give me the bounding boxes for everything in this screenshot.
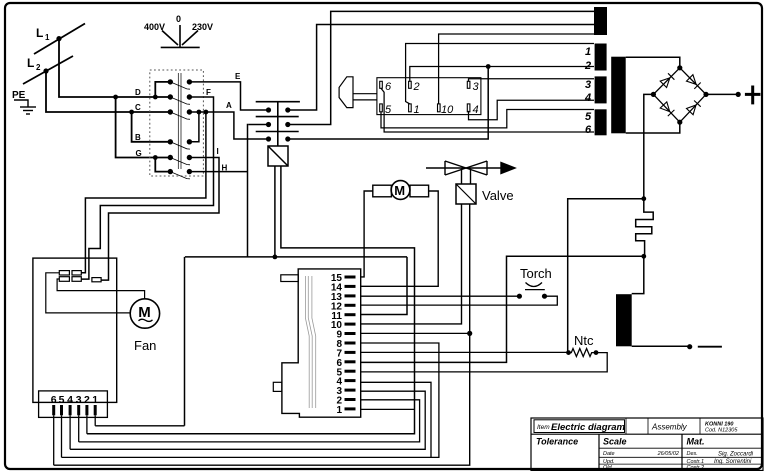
- switch L2: [23, 56, 73, 84]
- wire valve right to pin9 and bundle6: [54, 204, 470, 465]
- svg-text:Fan: Fan: [134, 338, 156, 353]
- wire pin5 to tap5: [381, 110, 594, 128]
- SECTION: wires switch to connector / fan box: [81, 82, 266, 280]
- wire D-row branch down to G row: [116, 97, 171, 158]
- node on A row x206: [204, 110, 209, 115]
- svg-text:I: I: [217, 147, 219, 156]
- wire motor right to pin14: [361, 191, 438, 286]
- pin 2: [409, 81, 412, 88]
- secondary winding bar: [611, 57, 626, 134]
- svg-text:C: C: [135, 103, 141, 112]
- wire valve left to pin10: [361, 204, 462, 324]
- fan outer box: [33, 258, 117, 402]
- svg-text:2: 2: [36, 63, 41, 72]
- wire x185 down: [184, 257, 186, 426]
- pcb pin 7: [345, 351, 356, 354]
- SECTION: gas pump motor: [361, 181, 438, 287]
- svg-text:2: 2: [413, 81, 420, 93]
- title name box: [534, 420, 625, 433]
- pcb pin 3: [345, 389, 356, 392]
- svg-text:A: A: [226, 101, 232, 110]
- wire L1 to D row: [59, 39, 170, 97]
- plug ribbon lines: [353, 94, 377, 100]
- title inner dividers: [599, 434, 682, 469]
- valve body diagonal: [456, 184, 476, 204]
- svg-text:6: 6: [385, 81, 392, 93]
- svg-text:B: B: [135, 133, 141, 142]
- wire I down: [101, 158, 219, 281]
- title block outer: [531, 418, 763, 470]
- connector center line: [277, 102, 279, 147]
- node torch right: [542, 294, 547, 299]
- wire ntc right to pin5 riser: [361, 353, 607, 372]
- pin dot row2 right: [285, 122, 290, 127]
- wire c2 drop: [86, 415, 88, 434]
- pin c4: [69, 405, 72, 415]
- svg-text:5: 5: [585, 111, 592, 123]
- wire pin4 to tap4: [469, 100, 595, 120]
- connector bar mid: [256, 116, 299, 118]
- svg-text:Electric diagram: Electric diagram: [551, 422, 625, 433]
- svg-text:Valve: Valve: [482, 188, 514, 203]
- contact row6: [168, 169, 192, 179]
- wire module right leg down to bundle c2: [87, 166, 415, 434]
- pin c6: [52, 405, 55, 415]
- svg-text:D: D: [135, 88, 141, 97]
- terminal B2: [72, 277, 81, 282]
- node D junction: [153, 95, 158, 100]
- wire pin7 to ntc: [361, 351, 569, 353]
- wire connector row2L down: [247, 125, 250, 257]
- minus symbol: [698, 346, 722, 348]
- node choke top: [641, 196, 646, 201]
- SECTION: DC loop: [361, 94, 653, 362]
- terminal B1: [59, 277, 69, 282]
- node junction on D row: [113, 95, 118, 100]
- pcb pin 12: [345, 304, 356, 307]
- node torch left: [517, 294, 522, 299]
- pin dot row1 right: [285, 107, 290, 112]
- wire c3 drop: [78, 415, 80, 442]
- node bridge bottom: [677, 120, 682, 125]
- svg-text:400V: 400V: [144, 22, 165, 32]
- wire row2R to 0-bus: [288, 11, 594, 124]
- contact row1: [168, 79, 192, 89]
- wire L2 to C row: [46, 71, 170, 112]
- pin c5: [60, 405, 63, 415]
- svg-text:5: 5: [59, 394, 65, 406]
- wire C2 drop to fan box: [81, 112, 206, 273]
- svg-text:Item: Item: [537, 424, 550, 431]
- node minus terminal: [687, 344, 692, 349]
- svg-text:6: 6: [51, 394, 57, 406]
- wire c1 drop: [94, 415, 96, 426]
- svg-text:4: 4: [473, 104, 479, 116]
- pcb pin 9: [345, 332, 356, 335]
- terminal A2: [72, 271, 81, 275]
- shunt winding bar: [616, 294, 632, 346]
- pcb pin 11: [345, 313, 356, 316]
- node y257 module junction: [273, 255, 278, 260]
- contact row4 B: [168, 139, 192, 149]
- node bridge right: [703, 92, 708, 97]
- wire pin3 hairpin to bundle c4: [70, 391, 425, 449]
- pin c2: [85, 405, 88, 415]
- svg-text:Scale: Scale: [603, 437, 627, 447]
- winding bar tap0: [594, 7, 607, 35]
- wire pin3 to tap3: [469, 79, 595, 82]
- svg-text:L: L: [27, 56, 34, 70]
- ground PE: [14, 100, 36, 114]
- svg-text:3: 3: [473, 81, 480, 93]
- svg-text:Ing. Sorrentini: Ing. Sorrentini: [714, 459, 752, 465]
- bridge diamond: [653, 68, 706, 122]
- wire H: [189, 171, 247, 173]
- svg-text:10: 10: [441, 104, 454, 116]
- node tap2 junction: [486, 64, 491, 69]
- wire bundle c1: [95, 425, 184, 427]
- wire module left leg down: [274, 166, 276, 257]
- wire choke down to shunt: [632, 256, 644, 293]
- pin c1: [94, 405, 97, 415]
- svg-text:PE: PE: [12, 90, 26, 101]
- wire C-row branch down to B row: [132, 112, 171, 142]
- label M1 tilde: [139, 319, 153, 321]
- pcb box: [282, 269, 361, 417]
- wire c4 drop: [69, 415, 71, 449]
- pin dot row3 left: [266, 136, 271, 141]
- fan connector box: [39, 391, 108, 418]
- pcb pin 2: [345, 398, 356, 401]
- wire c5 drop: [61, 415, 63, 457]
- svg-text:Mat.: Mat.: [687, 437, 705, 447]
- wire pin4 hairpin to bundle c5: [62, 382, 432, 457]
- torch actuator arc: [526, 283, 543, 287]
- wire torch left to pin13: [361, 295, 519, 297]
- wire bridge to plus: [706, 93, 738, 95]
- long wire y257 net: [185, 255, 408, 426]
- SECTION: title block: [531, 418, 763, 470]
- wire B1 to motor top: [57, 279, 145, 298]
- pcb pin 13: [345, 294, 356, 297]
- svg-text:4: 4: [67, 394, 73, 406]
- wire G to row6 U-link: [155, 158, 170, 172]
- resistor Ntc zigzag: [569, 349, 597, 357]
- winding bar taps 3-4: [595, 76, 607, 103]
- wire A: [189, 112, 266, 139]
- wire c6 drop: [53, 415, 55, 465]
- wire motor left to pin15: [361, 191, 373, 277]
- svg-text:2: 2: [584, 60, 591, 72]
- wire choke bottom to pcb pin6: [361, 256, 644, 362]
- wire F down: [81, 97, 213, 279]
- winding bar taps 1-2: [595, 44, 607, 71]
- svg-text:1: 1: [585, 46, 591, 58]
- wire bridge left down: [644, 94, 654, 198]
- wire row2L stub: [248, 124, 268, 126]
- pin 1: [409, 104, 412, 112]
- SECTION: valve: [54, 161, 515, 465]
- pin dot row3 right: [285, 136, 290, 141]
- pcb pin 6: [345, 360, 356, 363]
- title row divider: [531, 433, 763, 435]
- selector dashed box: [150, 70, 204, 176]
- svg-text:2: 2: [84, 394, 90, 406]
- pcb pin 8: [345, 342, 356, 345]
- node ntc left: [566, 350, 571, 355]
- wire pin1 to tap1: [406, 44, 594, 104]
- svg-text:4: 4: [584, 92, 591, 104]
- pin 6: [380, 81, 383, 88]
- node junction on C row: [129, 110, 134, 115]
- svg-text:230V: 230V: [192, 22, 213, 32]
- SECTION: input: [14, 24, 170, 158]
- pcb pin 10: [345, 323, 356, 326]
- wire secondary top to bridge: [626, 57, 680, 68]
- wire pin2 hairpin to bundle c3: [79, 400, 420, 442]
- node bridge left: [651, 92, 656, 97]
- svg-text:3: 3: [585, 79, 591, 91]
- wire secondary bottom to bridge: [626, 122, 680, 133]
- pin dot row2 left: [266, 122, 271, 127]
- diode D2 top-right: [687, 75, 701, 89]
- valve flow line: [426, 167, 501, 169]
- plug shape: [339, 77, 353, 108]
- wire shunt to minus terminal: [632, 345, 690, 347]
- plus symbol: [745, 86, 761, 105]
- wire pin2 to tap2: [410, 67, 594, 82]
- diode D4 bottom-right: [687, 101, 701, 115]
- node pin9 junction: [467, 331, 472, 336]
- pin 10: [438, 104, 441, 112]
- SECTION: Ntc: [361, 349, 607, 372]
- valve stem pipe: [462, 169, 471, 184]
- svg-text:Des.: Des.: [687, 451, 698, 457]
- wire B hook row4 to A row: [189, 112, 199, 142]
- svg-text:Torch: Torch: [520, 266, 552, 281]
- pin dot row1 left: [266, 107, 271, 112]
- svg-text:G: G: [136, 149, 142, 158]
- pin c3: [77, 405, 80, 415]
- contact row3 C: [168, 109, 192, 119]
- wire choke top to ntc drop: [568, 199, 644, 353]
- contact row2 D: [168, 94, 192, 104]
- node plus terminal: [736, 92, 741, 97]
- pcb pin 15: [345, 276, 356, 279]
- voltage selector symbol: [161, 25, 200, 47]
- svg-text:26/05/02: 26/05/02: [657, 451, 679, 457]
- svg-text:Ntc: Ntc: [574, 333, 594, 348]
- wire pin8 down to bundle5: [361, 343, 439, 457]
- wire row3R to tap2 node: [288, 67, 488, 140]
- wire D to row1 U-link: [155, 82, 170, 97]
- wire E: [189, 82, 266, 110]
- SECTION: connector CN1 (plug-socket): [256, 102, 300, 147]
- wire row1R to 0-bus: [288, 25, 594, 111]
- terminal C: [92, 278, 101, 282]
- pcb tab top-left: [281, 275, 298, 282]
- svg-text:Cod. N12305: Cod. N12305: [705, 428, 738, 434]
- connector bar top: [256, 101, 300, 103]
- pcb tab bottom-left: [273, 382, 282, 391]
- wire pin9 to valve line: [361, 332, 470, 334]
- motor M2 circle: [391, 181, 410, 200]
- svg-text:0: 0: [176, 14, 181, 24]
- svg-text:1: 1: [336, 405, 342, 416]
- pcb connector box: [377, 78, 481, 115]
- svg-text:F: F: [206, 88, 211, 97]
- SECTION: torch button: [361, 283, 557, 306]
- pin 5: [380, 104, 383, 112]
- svg-text:L: L: [36, 26, 43, 40]
- svg-text:Sig. Zoccardi: Sig. Zoccardi: [718, 452, 754, 458]
- svg-text:1: 1: [45, 33, 50, 42]
- terminal A1: [59, 271, 69, 275]
- motor M2 right box: [410, 185, 429, 197]
- valve body box: [456, 184, 476, 204]
- svg-text:3: 3: [76, 394, 82, 406]
- svg-text:E: E: [235, 72, 241, 81]
- wire pin6 to tap6: [381, 88, 594, 132]
- motor M2 left box: [373, 185, 392, 197]
- motor M1 fan circle: [130, 299, 159, 328]
- svg-text:1: 1: [92, 394, 98, 406]
- box with diagonal (inrush module): [268, 146, 288, 166]
- svg-text:Costr.2: Costr.2: [687, 465, 705, 471]
- choke L1 meander: [636, 199, 654, 257]
- svg-text:Old: Old: [603, 465, 613, 471]
- diode D3 bottom-left: [660, 102, 674, 116]
- wire y257 horizontal: [185, 256, 407, 258]
- wire torch right to pin12: [361, 296, 557, 305]
- contact row5 G: [168, 155, 192, 165]
- node G junction: [153, 155, 158, 160]
- winding bar taps 5-6: [595, 109, 607, 135]
- svg-text:5: 5: [385, 104, 392, 116]
- node choke bottom: [641, 254, 646, 259]
- valve arrow: [501, 163, 515, 174]
- wire x407 down to pin11: [361, 257, 407, 315]
- connector bar low: [256, 131, 299, 133]
- switch L1: [34, 24, 85, 55]
- svg-text:Tolerance: Tolerance: [536, 437, 578, 447]
- valve bowtie: [445, 161, 487, 175]
- pcb pin 5: [345, 370, 356, 373]
- torch actuator bar: [525, 289, 545, 291]
- svg-text:6: 6: [585, 124, 592, 136]
- node bridge top: [677, 65, 682, 70]
- pin 3: [467, 81, 470, 88]
- SECTION: bridge rectifier: [626, 57, 761, 133]
- diode D1 top-left: [660, 73, 674, 87]
- node on A row x199: [197, 110, 202, 115]
- pcb trace curves: [305, 276, 315, 408]
- svg-text:1: 1: [414, 104, 420, 116]
- wire pin10 to tap0: [439, 34, 594, 104]
- wire pin1 to x414.5 riser: [361, 408, 415, 410]
- pcb pin 1: [345, 407, 356, 410]
- pcb pin 4: [345, 379, 356, 382]
- node ntc right: [594, 350, 599, 355]
- svg-text:M: M: [138, 304, 151, 321]
- pin 4: [467, 104, 470, 112]
- svg-text:M: M: [394, 183, 405, 198]
- pcb pin 14: [345, 285, 356, 288]
- selector coupling bars: [178, 73, 181, 169]
- svg-text:Assembly: Assembly: [651, 423, 688, 432]
- svg-text:Date: Date: [603, 451, 615, 457]
- wire A1 to motor left: [46, 273, 130, 313]
